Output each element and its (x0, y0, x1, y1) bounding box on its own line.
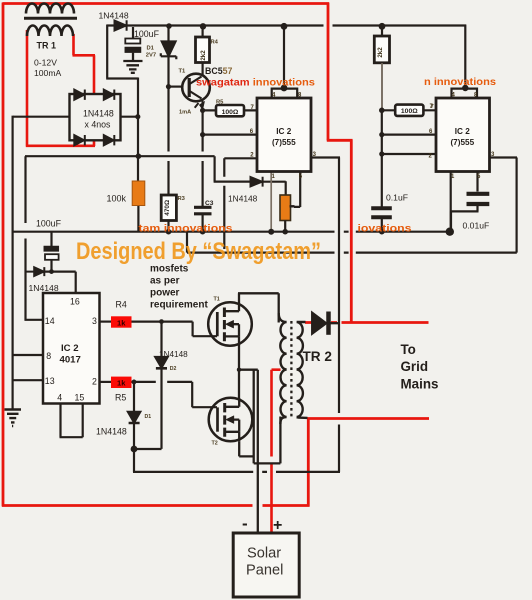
svg-text:T1: T1 (179, 69, 187, 75)
svg-text:0-12V: 0-12V (34, 58, 57, 68)
wire bottom rail y231 (13, 231, 450, 233)
wire x253.7 vertical (253, 370, 255, 464)
node junction dots (166, 23, 172, 29)
svg-text:TR 1: TR 1 (37, 41, 57, 51)
svg-text:+: + (273, 517, 282, 534)
wire top rail y25.5 (107, 24, 466, 26)
svg-text:2k2: 2k2 (377, 47, 384, 58)
wire pin3 4017 to R4 1k (100, 321, 112, 323)
diode 1N4148 top in rail (115, 20, 127, 30)
svg-text:(7)555: (7)555 (272, 138, 296, 147)
wire 555-1 pin3 to x339 (311, 156, 340, 158)
svg-text:-: - (242, 514, 248, 533)
capacitor 100uF top: stub (132, 27, 134, 39)
svg-text:3: 3 (92, 316, 97, 326)
transformer TR1 core (24, 17, 77, 20)
wire T2 source to rail (239, 441, 254, 456)
op-amp timer IC2 555 first box (257, 98, 311, 172)
wire 555-2 pins 4-8 bracket (452, 89, 478, 99)
resistor R5 1k red box (111, 377, 132, 388)
svg-text:100Ω: 100Ω (401, 108, 418, 115)
transistor T1 base bar (188, 78, 191, 97)
capacitor C3 plates (194, 207, 212, 214)
bridge diode top-left (74, 90, 85, 100)
wire cap to clock diode line (50, 260, 52, 272)
svg-text:0.1uF: 0.1uF (386, 193, 408, 203)
svg-text:1N4148: 1N4148 (159, 350, 188, 359)
mosfet T2 drain connection (225, 398, 240, 407)
svg-text:14: 14 (45, 316, 55, 326)
mosfet T1 substrate arrow (233, 324, 239, 336)
transistor T1 base wire (169, 85, 183, 87)
wire red border bottom (2, 504, 310, 507)
svg-text:1N4148: 1N4148 (83, 109, 114, 119)
svg-text:R3: R3 (178, 196, 186, 202)
mosfet T1 drain connection (224, 303, 239, 312)
svg-text:Mains: Mains (401, 377, 439, 392)
svg-text:0.01uF: 0.01uF (463, 221, 490, 231)
svg-text:(7)555: (7)555 (450, 138, 474, 147)
wire pin8 4017 (13, 354, 44, 356)
wire red to grid mains bottom (307, 417, 429, 420)
diode D1 symbol (128, 412, 140, 423)
svg-text:R4: R4 (211, 40, 219, 46)
svg-text:7: 7 (431, 104, 434, 110)
wire 555-1 pins 4-8 bracket (272, 89, 298, 99)
wire node y369.7 (239, 369, 258, 371)
svg-text:TR 2: TR 2 (303, 349, 333, 364)
svg-text:1N4148: 1N4148 (96, 427, 127, 437)
mosfet T2 gate bar (216, 407, 219, 431)
bridge rectifier box 1N4148 x 4nos (70, 94, 121, 140)
svg-text:x 4nos: x 4nos (85, 120, 112, 130)
transistor T1 emitter collector (190, 77, 202, 99)
svg-text:2V7: 2V7 (146, 53, 156, 59)
node x339 long vertical (338, 158, 340, 472)
svg-text:100uF: 100uF (36, 219, 62, 229)
wire pin13 4017 (13, 379, 44, 381)
svg-text:IC 2: IC 2 (61, 343, 79, 354)
bridge diode bottom-left (74, 135, 85, 145)
resistor R4 1k red box (111, 316, 132, 327)
resistor R3 470 box (161, 195, 176, 221)
capacitor 100uF left solid plate (44, 246, 59, 251)
wire pin5 right 555 to 0.01uF (451, 172, 479, 231)
counter IC2 4017 box (43, 293, 100, 404)
wire red vertical right of first 555 (327, 3, 330, 141)
wire diode to pot top (263, 181, 286, 195)
ground symbol under 100uF (123, 53, 142, 73)
mosfet T1 gate bar (216, 312, 219, 336)
svg-text:To: To (401, 342, 416, 357)
wire pin6 right 555 (382, 134, 436, 136)
svg-text:T2: T2 (212, 441, 218, 447)
svg-text:tam innovations: tam innovations (139, 224, 233, 235)
wire pin2 4017 to R5 1k (100, 381, 112, 383)
wire pin2 first 555 (224, 158, 257, 249)
wire red border top (3, 2, 330, 5)
svg-text:1N4148: 1N4148 (99, 11, 129, 21)
wire junction y449 (134, 448, 162, 450)
svg-text:requirement: requirement (150, 300, 208, 311)
diode 1N4148 clock horizontal (26, 267, 45, 276)
wire pin2 right 555 (382, 153, 436, 155)
mosfet T1 channel segments (223, 308, 226, 342)
svg-text:R5: R5 (115, 393, 126, 403)
timer IC2 555 second box (436, 98, 490, 172)
wire mosfet source rail y472 (133, 471, 340, 473)
wire 100ohm right connections pin7 (382, 109, 436, 111)
svg-text:1k: 1k (117, 379, 126, 388)
capacitor 0.1uF plates (371, 208, 392, 217)
wire red vertical to grid-low (307, 418, 310, 507)
svg-text:swagatam innovations: swagatam innovations (196, 78, 315, 89)
wire red vertical x352 (350, 140, 353, 323)
diode 1N4148 horizontal at pin2 line (251, 177, 263, 187)
svg-text:8: 8 (46, 351, 51, 361)
svg-text:D1: D1 (145, 414, 152, 420)
mosfet T2 circle (209, 398, 253, 442)
mosfet T1 source connection (224, 336, 239, 346)
wire bridge right output (121, 116, 139, 118)
wire x257.8 vertical to rail and solar minus (257, 370, 259, 533)
wire pin1 first 555 gray (270, 172, 272, 232)
svg-text:Designed By “Swagatam”: Designed By “Swagatam” (76, 238, 321, 265)
svg-text:T1: T1 (214, 297, 220, 303)
transistor T1 BC557 circle (182, 74, 210, 102)
svg-text:D1: D1 (147, 46, 155, 52)
wire node x381.8 vertical (381, 110, 383, 206)
svg-text:1mA: 1mA (179, 110, 191, 116)
wire 0.1uF bottom to rail (381, 219, 383, 232)
mosfet T2 substrate arrow (233, 420, 239, 432)
wire return rail y252.5 (187, 252, 517, 254)
transformer TR2 primary winding (279, 313, 287, 424)
svg-text:IC 2: IC 2 (455, 127, 470, 136)
resistor R5 100 ohm box (216, 105, 244, 116)
wire red jog horizontal (327, 139, 353, 142)
wire left vertical x12.5 bridge to ground (12, 116, 14, 409)
mosfet T2 source connection (225, 432, 240, 442)
transistor T1 collector down + 1mA arrow (195, 99, 203, 111)
svg-text:D2: D2 (170, 366, 177, 372)
resistor R4 2k2 box (196, 37, 210, 63)
wire 2k2 right bottom to node (381, 63, 383, 110)
resistor R4 2k2 top stub (202, 27, 204, 75)
svg-text:Panel: Panel (246, 563, 283, 579)
wire collector node to R5 and down (203, 110, 258, 206)
svg-text:mosfets: mosfets (150, 264, 189, 275)
svg-text:4017: 4017 (60, 355, 81, 366)
wire rail y156 corner down to diode line (214, 156, 251, 181)
wire R3 bottom to rail (167, 221, 169, 232)
svg-text:13: 13 (45, 376, 55, 386)
svg-text:100k: 100k (107, 194, 127, 204)
capacitor 100uF top plate outline (125, 39, 140, 44)
capacitor 0.01uF plates (467, 194, 490, 204)
diode D2 symbol (156, 357, 168, 368)
transformer TR1 primary winding (26, 4, 74, 14)
zener diode D1 2V7 (161, 27, 177, 195)
transformer TR2 core dotted (290, 321, 292, 419)
wire top rail right corner down to 555 no2 (464, 25, 466, 89)
svg-text:C3: C3 (205, 200, 214, 207)
resistor 100k body (132, 181, 145, 206)
capacitor 100uF left outline plate (45, 254, 59, 260)
svg-text:1k: 1k (117, 318, 126, 327)
resistor 2k2 right box (374, 36, 389, 63)
svg-text:100Ω: 100Ω (222, 109, 239, 116)
bridge diode top-right (104, 90, 115, 100)
wire 555-1 supply feed (283, 27, 285, 89)
wire red TR1 secondary left down (26, 30, 95, 146)
svg-text:power: power (150, 288, 180, 299)
wire y463.4 to primary bottom (254, 417, 281, 464)
svg-text:1N4148: 1N4148 (29, 283, 59, 293)
wire R4 to T1 gate (132, 322, 218, 337)
svg-text:15: 15 (75, 393, 85, 403)
wire top-left corner down (106, 25, 138, 182)
wire red TR2 center tap to solar plus (272, 370, 281, 533)
mosfet T2 channel segments (223, 403, 226, 437)
svg-text:IC 2: IC 2 (276, 127, 291, 136)
capacitor 100uF left stub (50, 232, 52, 246)
svg-text:BC557: BC557 (205, 66, 233, 76)
wire 2k2 right stub top (381, 27, 383, 36)
solar panel box (233, 533, 299, 597)
wire bridge left output (13, 116, 70, 118)
wire stub connecting rails x187 (186, 232, 188, 253)
wire pin3 right 555 down (490, 158, 518, 253)
svg-text:2k2: 2k2 (200, 50, 207, 61)
svg-text:n innovations: n innovations (424, 77, 496, 88)
wire red to grid mains top (305, 321, 429, 324)
resistor 100 ohm right box (395, 105, 423, 116)
wire C3 bottom to rail (202, 215, 204, 232)
mosfet T1 circle (208, 302, 252, 346)
svg-text:100mA: 100mA (34, 68, 61, 78)
svg-text:Solar: Solar (247, 546, 281, 562)
wire red TR1 secondary right to bridge top (73, 34, 96, 94)
wire red border left (2, 3, 5, 507)
svg-text:2: 2 (92, 376, 97, 386)
svg-text:iovations: iovations (358, 224, 412, 235)
capacitor 100uF top plate solid (125, 47, 141, 53)
diode D1 vertical line (133, 382, 135, 449)
diode TR2 secondary top (312, 312, 327, 334)
potentiometer orange body (280, 195, 291, 221)
svg-text:470Ω: 470Ω (164, 200, 171, 216)
svg-text:Grid: Grid (401, 359, 429, 374)
svg-text:100uF: 100uF (134, 29, 160, 39)
diode D2 vertical line (160, 322, 162, 449)
wire pin4 pin15 loop (60, 404, 83, 438)
wire diode to pin16 (44, 272, 75, 293)
svg-text:R5: R5 (216, 100, 224, 106)
ground symbol left (5, 410, 22, 427)
svg-text:1N4148: 1N4148 (228, 193, 258, 203)
wire pot bottom to rail (284, 221, 286, 232)
bridge diode bottom-right (104, 135, 115, 145)
wire rail y156 (25, 155, 215, 157)
svg-text:4: 4 (57, 393, 62, 403)
wire pin5 first 555 (294, 172, 300, 208)
wire R5 to T2 gate (132, 382, 218, 407)
resistor 100k wire bottom (137, 206, 139, 232)
wire pin6 first 555 (203, 134, 258, 136)
wire to mosfet source rail (133, 449, 135, 472)
transformer TR2 secondary winding (297, 322, 308, 418)
svg-text:as per: as per (150, 276, 180, 287)
svg-text:16: 16 (70, 297, 80, 307)
wire pin1 right 555 (450, 172, 452, 232)
transformer TR1 secondary winding (27, 26, 73, 37)
wire T1 source to T2 drain node (238, 346, 240, 400)
svg-text:R4: R4 (116, 300, 127, 310)
wire T1 drain to TR2 primary top (238, 293, 279, 322)
wire x25.5 vertical to 4017 clock node (25, 156, 44, 320)
potentiometer wiper (290, 205, 295, 207)
